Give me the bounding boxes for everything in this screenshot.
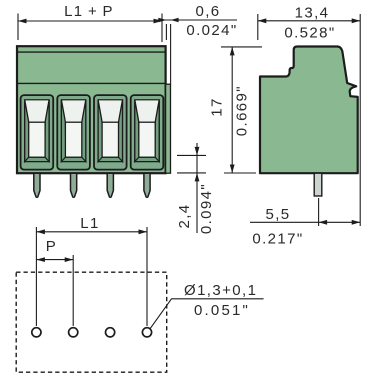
dim L1 extension right [146,227,148,326]
dim 5,5 line [250,221,360,223]
svg-text:0,6: 0,6 [195,3,220,20]
hole 4 [142,328,151,337]
right lip plate [166,84,171,173]
dim 13,4 / 5,5 shared extension right [359,14,361,226]
svg-text:17: 17 [209,97,226,117]
dim L1+P line [18,20,162,22]
dim 17 extension top [221,46,262,48]
hole 3 [106,328,115,337]
svg-text:0.217": 0.217" [252,231,303,248]
clamp 4 [131,95,164,170]
dim P line [36,259,73,261]
hole 2 [69,328,78,337]
dim 5,5 pin extension [318,198,320,226]
dim 17 extension bottom [224,172,256,174]
body band bottom line [17,82,166,84]
dim L1 extension left [35,227,37,326]
hole diameter leader line [150,299,264,329]
dim L1+P extension right [161,14,163,43]
svg-text:0.528": 0.528" [284,25,335,42]
svg-text:0.051": 0.051" [194,302,250,319]
side view pin [314,173,322,196]
dim 13,4 line [258,20,360,22]
svg-text:0.094": 0.094" [198,183,215,234]
pin 2 [71,173,77,197]
svg-text:5,5: 5,5 [265,206,290,223]
svg-text:P: P [46,238,57,255]
dim 0,6 line [155,19,237,21]
dim L1+P extension left [17,14,19,41]
svg-text:L1 + P: L1 + P [64,3,114,20]
svg-text:0.024": 0.024" [186,22,237,39]
pin 1 [34,173,40,197]
dim P extension right [72,255,74,326]
svg-text:0.669": 0.669" [234,85,251,136]
clamp 2 [57,95,90,170]
drilling plan dashed outline [16,272,167,372]
pin 3 [107,173,113,197]
body top strip line [17,51,166,53]
pin 4 [144,173,150,197]
hole 1 [32,328,41,337]
svg-text:13,4: 13,4 [295,5,330,22]
dim 13,4 extension left [257,14,259,40]
clamp 3 [94,95,127,170]
svg-text:Ø1,3+0,1: Ø1,3+0,1 [184,282,257,299]
side view body [260,47,358,174]
svg-text:2,4: 2,4 [176,203,193,228]
dim 2,4 line [196,143,198,233]
dim 17 line [231,47,233,173]
svg-text:L1: L1 [80,215,100,232]
dim 0,6 extension lines [165,24,167,40]
dim 2,4 extension top [177,154,206,156]
clamp 1 [21,95,54,170]
dim L1 line [36,231,147,233]
dim 2,4 extension bottom [177,172,206,174]
terminal block body [17,46,166,173]
